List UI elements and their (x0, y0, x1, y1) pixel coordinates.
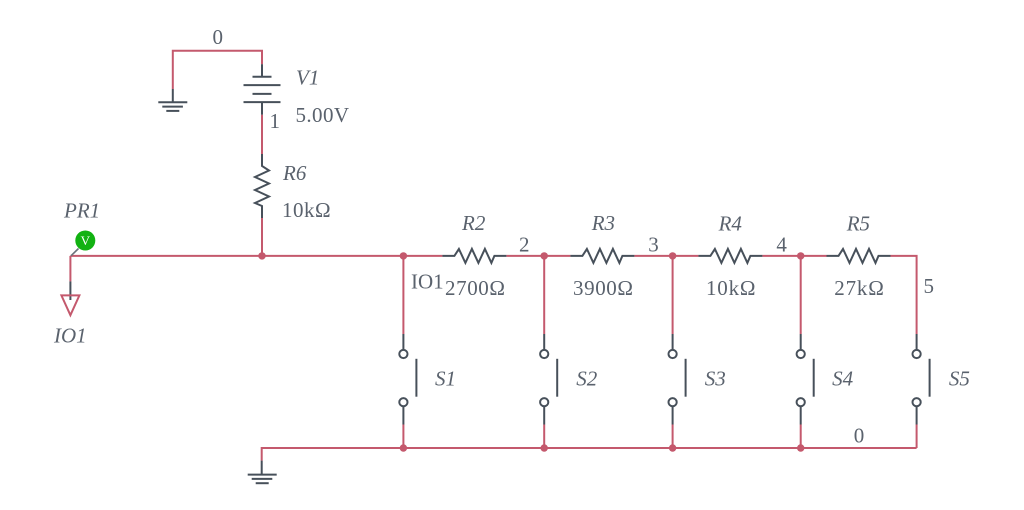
svg-text:27kΩ: 27kΩ (834, 276, 884, 300)
svg-text:S1: S1 (435, 366, 456, 390)
svg-text:R2: R2 (461, 211, 486, 235)
svg-text:0: 0 (854, 423, 865, 447)
svg-text:V: V (81, 233, 91, 248)
svg-text:3: 3 (648, 233, 659, 257)
svg-text:R3: R3 (591, 211, 615, 235)
svg-text:2: 2 (519, 233, 530, 257)
svg-text:S4: S4 (832, 366, 854, 390)
svg-text:IO1: IO1 (411, 270, 444, 294)
svg-text:3900Ω: 3900Ω (573, 276, 634, 300)
svg-text:5.00V: 5.00V (296, 103, 350, 127)
svg-text:IO1: IO1 (53, 324, 87, 348)
svg-text:R5: R5 (846, 211, 870, 235)
svg-text:10kΩ: 10kΩ (706, 276, 756, 300)
svg-text:S3: S3 (705, 366, 726, 390)
svg-text:S5: S5 (949, 366, 970, 390)
svg-text:0: 0 (213, 25, 224, 49)
svg-text:R4: R4 (718, 211, 743, 235)
svg-text:5: 5 (924, 274, 935, 298)
svg-text:10kΩ: 10kΩ (282, 198, 331, 222)
svg-text:1: 1 (270, 109, 281, 133)
svg-text:4: 4 (776, 233, 787, 257)
svg-text:V1: V1 (296, 65, 319, 89)
svg-text:2700Ω: 2700Ω (445, 276, 506, 300)
svg-text:S2: S2 (576, 366, 598, 390)
svg-text:PR1: PR1 (63, 199, 100, 223)
svg-text:R6: R6 (282, 161, 307, 185)
